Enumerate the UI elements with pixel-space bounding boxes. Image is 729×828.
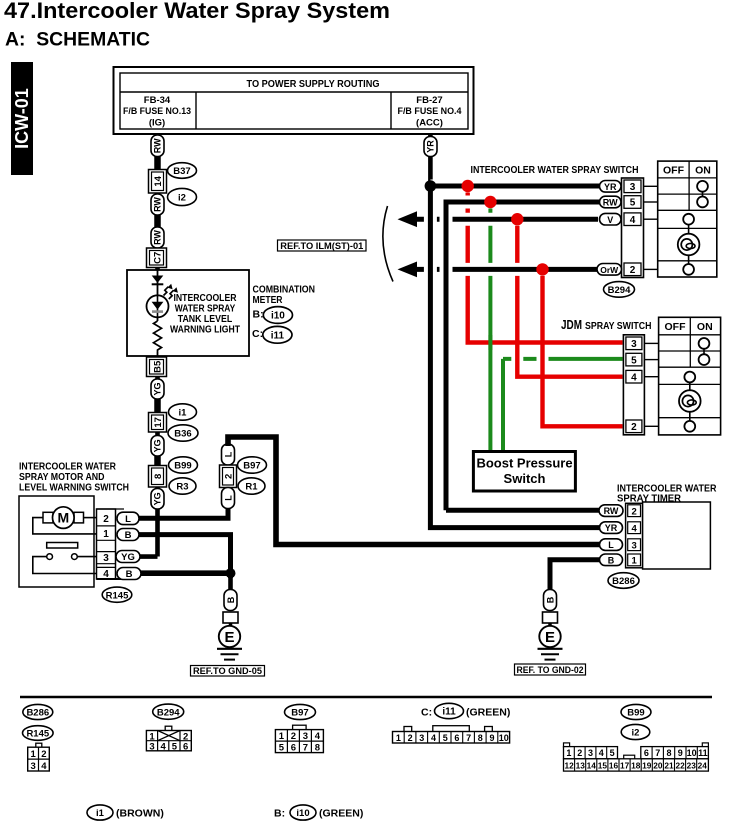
connector 17 (i1/B36)	[149, 413, 167, 433]
svg-text:7: 7	[466, 733, 471, 743]
pin 3 label YG	[116, 551, 140, 564]
pin 1 label B	[117, 529, 139, 542]
wire red from OrW junction to JDM pin 2	[543, 269, 623, 426]
wire label B pill ground G05	[224, 590, 237, 611]
svg-text:FB-34: FB-34	[144, 95, 171, 106]
svg-text:i11: i11	[271, 330, 285, 341]
connector 2 (B97/R1)	[220, 465, 237, 488]
svg-text:OFF: OFF	[663, 165, 685, 177]
svg-text:5: 5	[443, 733, 448, 743]
wire junction down to ground G05	[228, 573, 233, 591]
resistor in meter	[154, 321, 162, 352]
svg-text:YG: YG	[153, 492, 163, 505]
wire to ground G02	[548, 623, 552, 628]
svg-text:(GREEN): (GREEN)	[319, 808, 363, 820]
svg-text:5: 5	[631, 355, 637, 366]
fuse FB-34 F/B FUSE NO.13 (IG)	[123, 95, 191, 129]
svg-text:21: 21	[664, 761, 674, 771]
svg-text:M: M	[57, 510, 69, 526]
svg-text:4: 4	[431, 733, 436, 743]
wire label YG pill 1	[151, 379, 164, 399]
svg-text:B: B	[125, 530, 132, 541]
wire B pin1 to ground junction	[139, 535, 231, 578]
combination meter box	[127, 270, 249, 356]
svg-text:Boost Pressure: Boost Pressure	[476, 456, 572, 471]
svg-text:ON: ON	[697, 321, 713, 333]
svg-text:2: 2	[103, 514, 109, 525]
svg-text:4: 4	[630, 215, 636, 226]
svg-text:i1: i1	[179, 408, 188, 419]
svg-text:17: 17	[153, 417, 164, 428]
timer pin label L	[600, 539, 623, 551]
svg-text:3: 3	[588, 748, 593, 758]
JDM switch connector strip	[623, 335, 644, 435]
warning light LED symbol	[147, 295, 169, 317]
svg-text:REF. TO GND-02: REF. TO GND-02	[517, 665, 584, 676]
ref label GND-02	[515, 664, 586, 676]
svg-text:7: 7	[303, 743, 308, 754]
svg-text:B99: B99	[174, 461, 191, 472]
svg-text:1: 1	[566, 748, 571, 758]
svg-text:i11: i11	[442, 707, 456, 718]
svg-text:V: V	[607, 215, 613, 225]
wire red from V junction to JDM pin 4	[517, 219, 622, 377]
section label A: SCHEMATIC	[5, 29, 150, 51]
svg-text:B:: B:	[274, 808, 285, 820]
connector oval B294	[604, 282, 635, 298]
JDM OFF/ON table	[659, 317, 721, 435]
svg-text:B: B	[226, 596, 236, 603]
svg-text:REF.TO GND-05: REF.TO GND-05	[193, 666, 263, 677]
ground connector square G05	[223, 612, 238, 623]
wire V spray switch pin 4 dashed to ILM	[398, 211, 599, 227]
wire YR from FB-27	[428, 134, 433, 186]
timer pin label YR	[600, 522, 623, 534]
spray switch contacts ON pin5	[697, 192, 708, 208]
svg-text:8: 8	[666, 748, 671, 758]
svg-text:RW: RW	[603, 198, 618, 208]
connector oval B286 bottom	[23, 704, 53, 719]
svg-text:3: 3	[30, 761, 35, 772]
svg-text:3: 3	[419, 733, 424, 743]
svg-text:i2: i2	[632, 728, 640, 739]
svg-text:B:: B:	[253, 309, 264, 321]
wire B pin4 to ground junction	[141, 570, 231, 576]
wire RW vertical trunk from FB-34	[155, 134, 160, 557]
svg-text:11: 11	[698, 748, 708, 758]
svg-text:R145: R145	[106, 590, 129, 601]
svg-text:(GREEN): (GREEN)	[466, 707, 510, 719]
timer body box	[643, 502, 711, 569]
wire green to JDM spray switch pin 5	[503, 357, 623, 361]
connector grid B97	[275, 725, 323, 754]
connector C7	[147, 248, 167, 268]
svg-text:METER: METER	[253, 294, 283, 306]
spray switch contact chain pin4-lamp-pin2	[678, 214, 700, 275]
svg-text:1: 1	[631, 556, 637, 567]
svg-text:3: 3	[103, 553, 109, 564]
wire label B pill ground G02	[544, 590, 557, 611]
svg-text:9: 9	[489, 733, 494, 743]
svg-text:2: 2	[41, 749, 46, 760]
svg-text:Switch: Switch	[504, 471, 546, 486]
svg-text:B99: B99	[627, 708, 644, 719]
label JDM spray switch	[561, 318, 652, 332]
connector oval R145	[102, 587, 132, 602]
junction blob red on OrW line	[536, 263, 548, 275]
svg-text:8: 8	[315, 743, 320, 754]
svg-text:TO POWER SUPPLY ROUTING: TO POWER SUPPLY ROUTING	[247, 78, 380, 90]
svg-text:20: 20	[653, 761, 663, 771]
wire label L pill lower	[222, 488, 235, 509]
spray switch OFF/ON table	[658, 161, 717, 277]
connector oval R1	[238, 478, 265, 494]
junction dot B ground	[226, 568, 236, 578]
ground symbol E G02	[538, 626, 563, 660]
svg-text:6: 6	[291, 743, 296, 754]
svg-text:i2: i2	[178, 193, 186, 204]
wire label YG pill 2	[151, 436, 164, 457]
svg-text:6: 6	[183, 742, 188, 753]
svg-text:14: 14	[153, 175, 164, 186]
svg-text:C:: C:	[252, 328, 263, 340]
svg-text:3: 3	[631, 339, 637, 350]
connector grid R145 2x2	[28, 743, 50, 772]
connector oval B97	[238, 457, 267, 473]
connector oval B99 bottom	[621, 704, 651, 719]
svg-text:i1: i1	[96, 808, 105, 819]
spray switch contact table stubs	[644, 186, 658, 269]
timer pin label B	[600, 554, 623, 566]
svg-text:LEVEL WARNING SWITCH: LEVEL WARNING SWITCH	[19, 482, 129, 493]
svg-text:YR: YR	[426, 140, 436, 153]
connector oval B99	[169, 457, 198, 473]
svg-text:A: SCHEMATIC: A: SCHEMATIC	[5, 29, 150, 51]
svg-text:9: 9	[678, 748, 683, 758]
svg-text:14: 14	[587, 761, 597, 771]
connector grid B294	[146, 726, 191, 752]
wire YR to spray switch pin 3	[430, 180, 600, 193]
label combination meter	[253, 283, 316, 306]
svg-text:B: B	[126, 569, 133, 580]
svg-text:7: 7	[655, 748, 660, 758]
svg-text:16: 16	[609, 761, 619, 771]
svg-text:B97: B97	[291, 708, 308, 719]
svg-text:12: 12	[564, 761, 574, 771]
label intercooler water spray timer	[617, 482, 717, 504]
svg-text:6: 6	[454, 733, 459, 743]
connector oval C: i11	[252, 326, 292, 343]
svg-text:YG: YG	[121, 552, 135, 563]
svg-text:YG: YG	[153, 382, 163, 395]
svg-text:INTERCOOLER WATER: INTERCOOLER WATER	[19, 461, 117, 472]
connector oval i2	[168, 188, 197, 205]
wire RW spray switch pin 5 to timer	[446, 202, 600, 510]
connector oval B286	[608, 573, 639, 589]
svg-text:SPRAY SWITCH: SPRAY SWITCH	[585, 320, 652, 332]
spray switch pin label OrW	[597, 264, 622, 276]
wire label RW pill 3	[151, 227, 164, 248]
svg-text:47.Intercooler Water Spray Sys: 47.Intercooler Water Spray System	[4, 0, 390, 23]
spray switch connector strip	[622, 178, 644, 278]
JDM contacts ON pin5	[699, 349, 710, 365]
ICW-01 tab	[11, 62, 33, 175]
svg-text:FB-27: FB-27	[416, 95, 442, 106]
svg-text:2: 2	[223, 474, 234, 479]
svg-text:B286: B286	[612, 576, 635, 587]
svg-text:17: 17	[620, 761, 630, 771]
svg-text:B5: B5	[153, 360, 164, 373]
connector oval R145 bottom	[23, 726, 54, 741]
svg-text:YG: YG	[153, 439, 163, 452]
svg-text:L: L	[125, 514, 131, 525]
svg-text:L: L	[608, 540, 614, 550]
svg-text:ICW-01: ICW-01	[12, 88, 32, 149]
svg-text:4: 4	[161, 742, 167, 753]
svg-text:19: 19	[642, 761, 652, 771]
timer pin label RW	[599, 505, 623, 517]
svg-text:2: 2	[630, 265, 636, 276]
svg-text:22: 22	[675, 761, 685, 771]
diode D in meter	[152, 276, 164, 285]
connector oval C: i11 bottom	[421, 703, 510, 718]
wire B timer pin1 to ground G02	[550, 560, 600, 591]
svg-text:L: L	[223, 451, 233, 457]
svg-text:5: 5	[172, 742, 178, 753]
JDM contacts ON pin3	[699, 338, 710, 349]
svg-text:5: 5	[279, 743, 285, 754]
svg-text:5: 5	[630, 198, 636, 209]
svg-text:6: 6	[644, 748, 649, 758]
level switch contacts	[47, 554, 78, 560]
svg-text:R145: R145	[26, 729, 49, 740]
brace arc for ILM reference	[383, 206, 393, 282]
wire RW vertical halo	[440, 202, 453, 510]
connector 8 (B99/R3)	[149, 466, 167, 488]
svg-text:1: 1	[279, 731, 285, 742]
connector strip R145 pins	[97, 509, 125, 580]
wire crossing halos	[468, 186, 543, 426]
spray switch pin label YR	[600, 181, 622, 193]
wire YG to motor switch pin 3	[139, 554, 158, 559]
svg-text:YR: YR	[604, 182, 617, 192]
svg-text:F/B FUSE NO.13: F/B FUSE NO.13	[123, 106, 191, 117]
svg-text:B: B	[545, 596, 555, 603]
svg-text:8: 8	[153, 474, 164, 479]
motor M	[43, 507, 84, 529]
LED emission arrows	[164, 284, 178, 299]
svg-text:B97: B97	[243, 461, 260, 472]
svg-text:B: B	[608, 555, 615, 565]
svg-text:4: 4	[631, 523, 637, 534]
svg-text:4: 4	[599, 748, 604, 758]
wire OrW spray switch pin 2 dashed to ILM	[398, 262, 599, 278]
label intercooler water spray tank level warning light	[170, 292, 240, 336]
connector grid i11	[393, 726, 510, 743]
wire green boost to JDM pin5 line	[501, 359, 505, 452]
svg-text:4: 4	[103, 569, 109, 580]
connector oval i1 (BROWN)	[87, 805, 164, 820]
connector oval i2 bottom	[621, 724, 650, 739]
connector oval R3	[169, 478, 196, 494]
connector oval B37	[168, 163, 197, 179]
svg-text:i10: i10	[271, 311, 285, 322]
ground connector square G02	[543, 612, 558, 623]
connector oval i1	[169, 404, 197, 420]
svg-text:R3: R3	[176, 482, 188, 493]
spray switch pin label RW	[600, 196, 622, 208]
svg-text:4: 4	[631, 372, 637, 383]
connector oval B294 bottom	[153, 704, 184, 719]
wire motor to pins	[33, 518, 97, 574]
svg-text:2: 2	[631, 506, 636, 517]
separator line	[20, 696, 712, 698]
svg-text:2: 2	[408, 733, 413, 743]
connector grid B99/i2 24pin	[564, 743, 709, 771]
wire green to boost pressure switch from RW junction	[488, 202, 492, 452]
svg-text:4: 4	[315, 731, 321, 742]
svg-text:B36: B36	[174, 429, 191, 440]
svg-text:1: 1	[396, 733, 401, 743]
connector oval B: i10 (GREEN)	[274, 805, 363, 820]
pin 2 label L	[117, 512, 139, 525]
svg-text:15: 15	[598, 761, 608, 771]
wire L chain vertical	[226, 437, 231, 518]
svg-text:3: 3	[630, 182, 636, 193]
wire label L pill upper	[222, 444, 235, 465]
spray switch pin label V	[600, 213, 622, 225]
wire green over red crossing	[488, 335, 492, 350]
svg-text:2: 2	[291, 731, 296, 742]
svg-text:10: 10	[687, 748, 697, 758]
svg-text:E: E	[224, 629, 234, 646]
svg-text:24: 24	[698, 761, 708, 771]
svg-text:3: 3	[303, 731, 308, 742]
connector oval B: i10	[253, 307, 293, 324]
svg-text:B286: B286	[26, 708, 49, 719]
svg-text:ON: ON	[695, 165, 711, 177]
page title	[4, 0, 390, 23]
svg-text:C:: C:	[421, 707, 432, 719]
svg-text:8: 8	[478, 733, 483, 743]
svg-text:i10: i10	[296, 808, 309, 819]
JDM switch table stubs	[644, 343, 658, 426]
svg-text:(BROWN): (BROWN)	[116, 808, 164, 820]
svg-text:23: 23	[687, 761, 697, 771]
svg-text:1: 1	[30, 749, 36, 760]
junction blob red on V line	[511, 213, 523, 225]
junction dot YR	[425, 180, 437, 192]
ref label ILM(ST)-01	[278, 240, 367, 251]
wire label RW pill 2	[151, 194, 164, 215]
svg-text:L: L	[223, 495, 233, 501]
svg-text:OFF: OFF	[665, 321, 687, 333]
motor/level switch box	[19, 496, 94, 587]
wire to ground G05	[229, 623, 233, 628]
svg-text:RW: RW	[153, 230, 163, 245]
svg-text:RW: RW	[604, 506, 619, 516]
svg-text:13: 13	[576, 761, 586, 771]
boost pressure switch box	[473, 452, 575, 492]
svg-text:1: 1	[103, 529, 109, 540]
svg-text:4: 4	[41, 761, 47, 772]
svg-text:INTERCOOLER WATER SPRAY SWITCH: INTERCOOLER WATER SPRAY SWITCH	[471, 164, 639, 176]
connector oval B97 bottom	[285, 704, 316, 719]
svg-text:2: 2	[631, 422, 637, 433]
svg-text:E: E	[545, 629, 555, 646]
ref label GND-05	[191, 666, 265, 678]
ground symbol E G05	[217, 626, 242, 660]
svg-text:WARNING LIGHT: WARNING LIGHT	[170, 324, 240, 336]
svg-text:5: 5	[610, 748, 615, 758]
power supply routing box	[114, 67, 474, 134]
wire L pin2 up to B97 connector	[139, 505, 228, 518]
junction blob red on RW line	[484, 196, 496, 208]
svg-text:OrW: OrW	[600, 265, 619, 275]
connector B5	[147, 357, 167, 377]
svg-text:18: 18	[631, 761, 641, 771]
svg-text:JDM: JDM	[561, 318, 582, 332]
junction blob red on YR line	[462, 180, 474, 192]
svg-text:SPRAY MOTOR AND: SPRAY MOTOR AND	[19, 472, 105, 483]
svg-text:YR: YR	[605, 523, 618, 533]
svg-text:RW: RW	[153, 197, 163, 212]
svg-text:(ACC): (ACC)	[416, 117, 443, 128]
wire label YG pill 3	[151, 489, 164, 510]
fuse FB-27 F/B FUSE NO.4 (ACC)	[398, 95, 463, 129]
svg-text:R1: R1	[245, 482, 258, 493]
svg-text:F/B FUSE NO.4: F/B FUSE NO.4	[398, 106, 463, 117]
label intercooler water spray motor and level warning switch	[19, 461, 129, 493]
svg-text:10: 10	[499, 733, 509, 743]
svg-text:C7: C7	[153, 252, 164, 264]
connector oval B36	[168, 425, 198, 441]
svg-text:REF.TO ILM(ST)-01: REF.TO ILM(ST)-01	[280, 241, 363, 251]
wire label YR pill top	[424, 137, 437, 157]
wire YR down to timer pin 4	[430, 186, 600, 528]
wire label RW pill 1	[151, 135, 164, 157]
JDM contact chain pin4-lamp-pin2	[679, 372, 701, 432]
svg-text:B294: B294	[157, 707, 180, 718]
svg-text:2: 2	[577, 748, 582, 758]
wire red from YR junction to JDM pin 3	[468, 186, 623, 343]
svg-text:3: 3	[149, 742, 154, 753]
svg-text:3: 3	[631, 540, 636, 551]
svg-text:B37: B37	[173, 166, 190, 177]
svg-text:(IG): (IG)	[149, 117, 165, 128]
float plate	[47, 543, 78, 549]
connector 14 (B37/i2)	[149, 170, 167, 194]
timer connector strip	[626, 503, 643, 568]
svg-text:RW: RW	[153, 138, 163, 153]
spray switch contacts ON pin3	[697, 181, 708, 192]
pin 4 label B	[117, 568, 141, 581]
label intercooler water spray switch	[471, 164, 639, 176]
svg-text:B294: B294	[608, 285, 631, 296]
wire L to intercooler water spray timer pin 3	[228, 437, 600, 545]
